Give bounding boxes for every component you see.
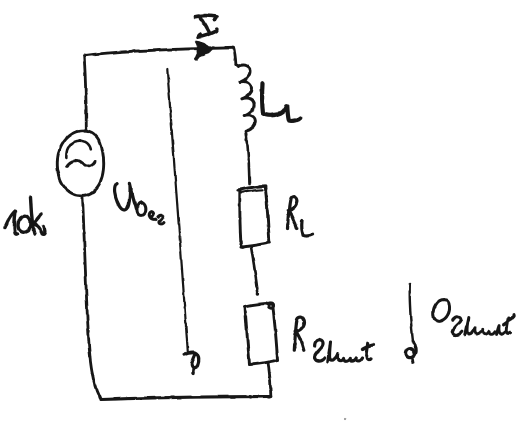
label 10k [5, 198, 45, 235]
label RL [288, 197, 313, 235]
wire top-right corner down to coil [234, 48, 236, 65]
label I [195, 16, 217, 37]
label UShunt [433, 300, 514, 336]
voltage arrow UGes (long measurement line) [167, 70, 198, 375]
stray ink dot [344, 417, 346, 419]
current arrow I (arrowhead on top wire) [196, 42, 212, 60]
label UGes [115, 183, 164, 224]
inductor LL (coil) [236, 65, 255, 141]
wire left upper (corner down to source) [84, 56, 86, 130]
wire coil to RL [247, 141, 249, 184]
resistor RShunt [245, 303, 278, 365]
wire bottom [101, 397, 271, 400]
wire left lower (corner up to source) [83, 198, 102, 400]
resistor RL [238, 186, 269, 247]
label RShunt [294, 318, 373, 362]
wire RL to RShunt [251, 247, 260, 296]
wire top (left corner to right corner) [84, 48, 234, 56]
voltage arrow UShunt [406, 284, 417, 362]
wire RShunt to bottom wire [268, 363, 271, 397]
source V1 (AC source) [57, 131, 103, 196]
label LL [262, 83, 300, 121]
